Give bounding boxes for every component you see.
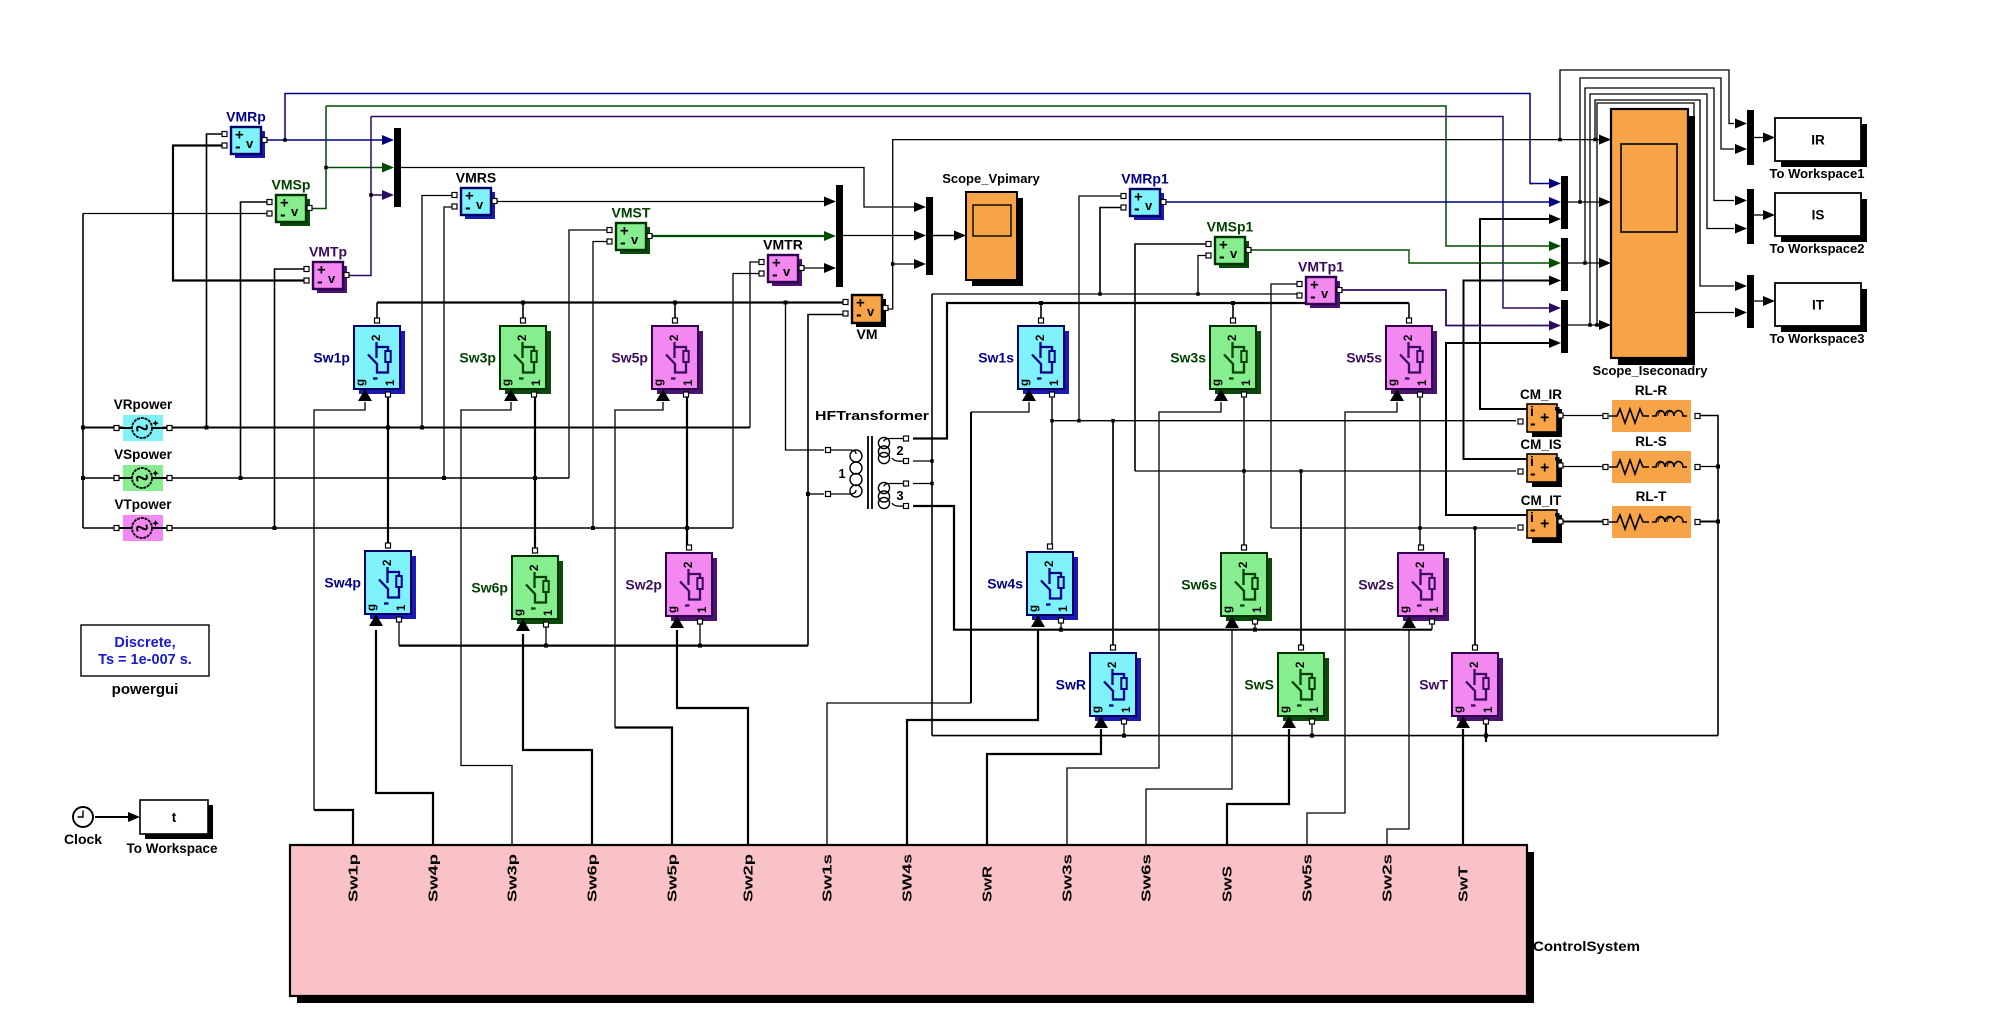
switch Sw5s <box>1346 318 1437 401</box>
svg-text:VRpower: VRpower <box>114 397 173 412</box>
wire muxR output to IR <box>1754 137 1766 139</box>
wire Sw6p p1 stub <box>545 627 547 646</box>
svg-text:-: - <box>235 137 241 156</box>
svg-text:To Workspace3: To Workspace3 <box>1770 331 1865 346</box>
wire Sw1p p2 stub <box>376 303 378 319</box>
wire Sw3p p2 stub <box>522 303 524 319</box>
wire muxT output to IT <box>1754 300 1766 302</box>
voltmeter VMTp1 <box>1297 259 1344 309</box>
wire muxB output to scope <box>1568 262 1601 264</box>
svg-text:To Workspace2: To Workspace2 <box>1770 241 1865 256</box>
wire loop6 to muxT in2 <box>1597 103 1734 325</box>
svg-text:To Workspace1: To Workspace1 <box>1770 166 1865 181</box>
wire neutral vertical <box>82 214 84 529</box>
powergui block <box>81 625 209 698</box>
wire control Sw1s <box>827 703 971 845</box>
svg-text:VM: VM <box>857 326 878 342</box>
mux muxR <box>1747 110 1754 165</box>
svg-text:t: t <box>172 810 177 825</box>
svg-text:-: - <box>772 265 778 284</box>
voltmeter VM <box>843 295 888 343</box>
svg-text:VMSp1: VMSp1 <box>1207 219 1254 235</box>
svg-text:g: g <box>513 609 525 616</box>
svg-text:VMST: VMST <box>612 205 651 221</box>
svg-text:2: 2 <box>1415 562 1427 568</box>
wire S secondary midpoint riser <box>1243 394 1245 549</box>
svg-text:Sw1p: Sw1p <box>313 350 350 366</box>
to-workspace t <box>126 800 218 856</box>
wire transformer w1 bottom <box>808 493 824 495</box>
wire VMST- riser <box>593 242 608 529</box>
switch SwS <box>1244 645 1329 728</box>
wire control Sw4p <box>376 630 433 845</box>
wire VM minus riser to emitter rail <box>808 315 845 646</box>
svg-text:Sw4p: Sw4p <box>427 853 441 902</box>
svg-text:Sw3s: Sw3s <box>1170 350 1206 366</box>
wire VMTp+ riser <box>275 269 306 528</box>
svg-text:2: 2 <box>669 335 681 341</box>
transformer HFTransformer <box>815 408 929 509</box>
wire VMSp green long line to muxB <box>326 106 1551 246</box>
mux mux2 <box>836 185 843 287</box>
mux muxB <box>1561 238 1568 291</box>
svg-text:2: 2 <box>1403 335 1415 341</box>
svg-text:v: v <box>1230 246 1238 261</box>
svg-text:1: 1 <box>385 379 397 386</box>
current measurement CM_IT <box>1518 493 1563 543</box>
wire control Sw2p <box>677 630 748 845</box>
svg-text:Sw1s: Sw1s <box>821 854 835 902</box>
svg-text:Scope_Vpimary: Scope_Vpimary <box>942 171 1040 186</box>
switch Sw3s <box>1170 318 1261 401</box>
voltmeter VMTp <box>304 244 349 294</box>
switch Sw2s <box>1358 545 1449 628</box>
mux mux1 <box>394 128 401 207</box>
svg-text:1: 1 <box>1309 706 1321 713</box>
wire center tap to secondary VM minus <box>932 293 1298 295</box>
wire VMSp+ riser <box>241 202 269 478</box>
wire Sw5s p2 stub <box>1408 303 1410 318</box>
svg-text:1: 1 <box>531 379 543 386</box>
RL load RL-R <box>1603 383 1700 432</box>
mux muxS <box>1747 189 1754 244</box>
wire loop5 to muxT in1 <box>1595 100 1734 286</box>
svg-text:-: - <box>1310 287 1316 306</box>
wire Sw6s p1 stub <box>1254 622 1256 630</box>
wire mux1 output <box>401 168 917 208</box>
svg-text:IT: IT <box>1812 298 1825 313</box>
wire control SwS <box>1227 729 1289 845</box>
wire VMTR+ riser <box>750 262 760 428</box>
svg-text:1: 1 <box>1429 606 1441 613</box>
svg-text:g: g <box>1279 706 1291 713</box>
svg-text:2: 2 <box>517 335 529 341</box>
wire control SwR <box>987 729 1101 845</box>
wire muxA output to scope <box>1568 201 1601 203</box>
wire Sw3s p2 stub <box>1232 303 1234 318</box>
wire VMTp output purple <box>344 117 371 276</box>
svg-text:2: 2 <box>1238 562 1250 568</box>
svg-text:v: v <box>246 136 254 151</box>
switch Sw1s <box>978 318 1069 401</box>
svg-text:SW4s: SW4s <box>901 854 915 902</box>
wire VMST output green thick <box>648 235 827 237</box>
svg-text:Ts = 1e-007 s.: Ts = 1e-007 s. <box>98 652 192 668</box>
wire primary emitter rail <box>399 644 808 646</box>
mux muxT <box>1747 275 1754 328</box>
svg-text:2: 2 <box>683 562 695 568</box>
wire RL return common <box>1699 416 1718 736</box>
wire SwT p1 stub <box>1485 721 1487 742</box>
wire w3-bottom to secondary emitter rail <box>913 506 1432 630</box>
svg-text:2: 2 <box>371 335 383 341</box>
svg-text:Sw2p: Sw2p <box>742 853 756 902</box>
switch Sw1p <box>313 318 405 401</box>
svg-text:Sw2s: Sw2s <box>1381 854 1395 902</box>
svg-text:VMTp: VMTp <box>309 244 347 260</box>
svg-text:-: - <box>1134 199 1140 218</box>
voltmeter VMRp1 <box>1121 171 1169 221</box>
switch Sw3p <box>459 318 551 401</box>
wire control SwT <box>1462 729 1464 845</box>
svg-text:CM_IT: CM_IT <box>1521 493 1562 508</box>
svg-text:+: + <box>1540 460 1549 477</box>
svg-text:Sw1s: Sw1s <box>978 350 1014 366</box>
wire T phase line <box>83 527 733 529</box>
svg-text:Sw1p: Sw1p <box>347 853 361 902</box>
wire control Sw6p <box>523 634 592 845</box>
svg-text:v: v <box>328 271 336 286</box>
svg-text:-: - <box>620 233 626 252</box>
svg-text:Sw5s: Sw5s <box>1346 350 1382 366</box>
svg-text:-: - <box>1530 414 1536 433</box>
wire control Sw2s <box>1387 630 1409 845</box>
wire VMSp1+ riser <box>1135 244 1207 471</box>
switch SwT <box>1419 645 1503 728</box>
wire VMSp output green <box>307 106 326 209</box>
wire CM_IS i signal <box>1464 281 1552 460</box>
wire VMRp1 output navy <box>1163 201 1551 203</box>
svg-text:RL-R: RL-R <box>1635 383 1667 398</box>
svg-text:-: - <box>856 305 862 324</box>
wire SwS p1 stub <box>1311 721 1313 736</box>
wire Sw1s p2 stub <box>1040 303 1042 318</box>
svg-text:To Workspace: To Workspace <box>126 841 218 856</box>
to-workspace IS <box>1770 193 1867 256</box>
svg-text:SwR: SwR <box>981 866 995 902</box>
wire mux3 output to Scope_Vpimary <box>933 235 957 237</box>
current measurement CM_IS <box>1518 437 1563 487</box>
wire S midpoint riser <box>534 394 536 549</box>
junction S line <box>239 476 243 480</box>
wire muxS output to IS <box>1754 214 1766 216</box>
RL load RL-S <box>1603 434 1700 483</box>
svg-text:1: 1 <box>1417 379 1429 386</box>
wire VMTR- riser <box>733 274 760 529</box>
svg-text:v: v <box>783 264 791 279</box>
wire clock to workspace t <box>95 816 128 818</box>
svg-text:1: 1 <box>838 466 845 481</box>
svg-text:1: 1 <box>1252 606 1264 613</box>
wire Sw2p p1 stub <box>699 624 701 646</box>
scope Scope_Vpimary <box>942 171 1040 286</box>
wire muxC output to scope <box>1568 324 1601 326</box>
subsystem ControlSystem <box>290 845 1640 1003</box>
svg-text:SwS: SwS <box>1244 677 1274 693</box>
svg-text:v: v <box>291 204 299 219</box>
wire VMTR output <box>801 267 827 269</box>
wire VMTp1 output navy <box>1339 290 1551 326</box>
wire S phase line <box>83 477 569 479</box>
svg-text:-: - <box>317 272 323 291</box>
svg-text:g: g <box>355 379 367 386</box>
wire SwR p1 stub <box>1123 721 1125 736</box>
wire VMSp- to neutral <box>83 213 268 215</box>
wire VMRS- riser <box>444 207 453 478</box>
wire CM_IT i signal <box>1446 343 1551 515</box>
wire Sw5p p2 stub <box>674 303 676 319</box>
mux muxA <box>1561 176 1568 229</box>
svg-text:RL-S: RL-S <box>1635 434 1667 449</box>
svg-text:Sw4s: Sw4s <box>987 576 1023 592</box>
svg-text:Sw6p: Sw6p <box>471 580 508 596</box>
svg-text:-: - <box>1530 464 1536 483</box>
svg-text:v: v <box>1145 198 1153 213</box>
wire VMTp purple long line to muxC <box>371 117 1551 309</box>
clock block <box>64 807 102 847</box>
svg-text:-: - <box>1530 520 1536 539</box>
svg-text:Sw4p: Sw4p <box>324 575 361 591</box>
svg-text:Sw6s: Sw6s <box>1181 577 1217 593</box>
switch Sw6s <box>1181 545 1272 628</box>
svg-text:v: v <box>867 304 875 319</box>
wire control Sw5p <box>615 728 672 846</box>
svg-text:+: + <box>1540 410 1549 427</box>
wire T midpoint riser <box>686 394 688 546</box>
svg-text:Sw6s: Sw6s <box>1140 854 1154 902</box>
AC source VRpower <box>114 397 173 441</box>
svg-text:VMRp: VMRp <box>226 109 266 125</box>
svg-text:1: 1 <box>683 379 695 386</box>
wire CM_IT to RL-T <box>1561 521 1604 523</box>
wire loop3 to muxS in1 <box>1585 88 1734 263</box>
junction T line <box>273 526 277 530</box>
wire primary collector rail <box>377 301 845 303</box>
wire VMSp1- riser <box>1198 256 1207 295</box>
wire VMRp1+ riser <box>1079 196 1122 421</box>
svg-text:CM_IR: CM_IR <box>1520 387 1562 402</box>
svg-text:g: g <box>501 379 513 386</box>
svg-text:1: 1 <box>1058 605 1070 612</box>
svg-text:g: g <box>1211 379 1223 386</box>
wire VMRp1- riser <box>1100 208 1122 295</box>
wire control Sw1p <box>314 810 353 845</box>
wire VM branch to mux3 <box>893 263 917 265</box>
voltmeter VMSp1 <box>1206 219 1254 269</box>
switch Sw6p <box>471 548 563 631</box>
wire R secondary midpoint riser <box>1051 394 1053 544</box>
svg-text:g: g <box>1019 379 1031 386</box>
svg-text:IR: IR <box>1811 133 1825 148</box>
svg-text:SwT: SwT <box>1419 677 1448 693</box>
svg-text:g: g <box>653 379 665 386</box>
svg-text:2: 2 <box>896 443 903 458</box>
switch Sw5p <box>611 318 703 401</box>
switch Sw4p <box>324 543 416 626</box>
svg-text:-: - <box>280 205 286 224</box>
svg-text:Sw3s: Sw3s <box>1061 854 1075 902</box>
wire CM_IS to RL-S <box>1561 466 1604 468</box>
wire control Sw6s <box>1146 630 1232 845</box>
svg-text:VSpower: VSpower <box>114 447 173 462</box>
wire loop2 to muxR in2 <box>1580 78 1734 202</box>
junction R line <box>205 426 209 430</box>
wire CM_IR to RL-R <box>1561 415 1604 417</box>
svg-text:HFTransformer: HFTransformer <box>815 408 929 423</box>
svg-text:ControlSystem: ControlSystem <box>1533 938 1640 954</box>
wire control Sw5s <box>1307 402 1397 845</box>
svg-text:Scope_Iseconadry: Scope_Iseconadry <box>1593 363 1709 378</box>
svg-text:Sw5p: Sw5p <box>611 350 648 366</box>
svg-text:2: 2 <box>382 560 394 566</box>
svg-text:2: 2 <box>529 565 541 571</box>
svg-text:Sw6p: Sw6p <box>586 853 600 902</box>
svg-text:2: 2 <box>1227 335 1239 341</box>
svg-text:+: + <box>1540 516 1549 533</box>
wire VMRS+ riser <box>422 196 453 428</box>
switch SwR <box>1056 645 1141 728</box>
svg-text:1: 1 <box>1121 706 1133 713</box>
svg-text:Sw2s: Sw2s <box>1358 577 1394 593</box>
wire VMTp to mux1 <box>371 194 385 196</box>
svg-text:Sw5p: Sw5p <box>666 853 680 902</box>
wire VM output riser to scope and mux3 <box>887 140 1601 309</box>
wire SwR p2 riser <box>1112 421 1114 645</box>
svg-text:CM_IS: CM_IS <box>1520 437 1561 452</box>
wire SwS p2 riser <box>1300 471 1302 645</box>
svg-text:1: 1 <box>1241 379 1253 386</box>
svg-text:1: 1 <box>697 606 709 613</box>
voltmeter VMST <box>607 205 652 255</box>
svg-text:VMTp1: VMTp1 <box>1298 259 1344 275</box>
mux mux3 <box>926 197 933 275</box>
svg-text:v: v <box>631 232 639 247</box>
wire VMSp1 output green <box>1248 250 1551 263</box>
svg-text:Sw3p: Sw3p <box>459 350 496 366</box>
svg-text:g: g <box>1028 605 1040 612</box>
svg-text:g: g <box>1387 379 1399 386</box>
wire VMRp+ riser <box>207 134 224 428</box>
wire control Sw3p <box>461 402 512 845</box>
svg-text:1: 1 <box>1049 379 1061 386</box>
wire w2-top to secondary rail <box>913 303 1409 439</box>
svg-text:Sw3p: Sw3p <box>506 853 520 902</box>
wire R phase line <box>83 427 750 429</box>
svg-text:1: 1 <box>1483 706 1495 713</box>
svg-text:2: 2 <box>1295 662 1307 668</box>
switch Sw4s <box>987 544 1078 627</box>
wire mux2 output <box>843 235 917 237</box>
svg-text:1: 1 <box>543 609 555 616</box>
svg-text:2: 2 <box>1469 662 1481 668</box>
svg-text:g: g <box>1399 606 1411 613</box>
wire control Sw3s <box>1067 402 1221 845</box>
wire center tap <box>913 460 932 462</box>
scope Scope_Iseconadry <box>1593 109 1709 378</box>
wire control SW4s <box>907 629 1038 845</box>
svg-text:g: g <box>366 604 378 611</box>
svg-text:SwR: SwR <box>1056 677 1086 693</box>
svg-text:3: 3 <box>896 488 903 503</box>
wire CM_IR i signal <box>1480 219 1551 409</box>
wire S secondary line to CM_IS <box>1135 470 1516 472</box>
svg-text:2: 2 <box>1035 335 1047 341</box>
svg-text:VTpower: VTpower <box>114 497 172 512</box>
svg-text:g: g <box>1222 606 1234 613</box>
wire VMTp1+ riser <box>1271 284 1298 528</box>
RL load RL-T <box>1603 489 1700 538</box>
wire T secondary midpoint riser <box>1419 394 1421 549</box>
wire SwT p2 riser <box>1474 528 1476 645</box>
svg-text:SwT: SwT <box>1457 865 1471 902</box>
AC source VSpower <box>114 447 173 491</box>
svg-text:VMSp: VMSp <box>272 177 311 193</box>
svg-text:Clock: Clock <box>64 831 102 847</box>
voltmeter VMRS <box>452 170 497 220</box>
svg-text:Sw5s: Sw5s <box>1301 854 1315 902</box>
svg-text:VMRS: VMRS <box>456 170 496 186</box>
wire loop1 scope in1 to muxR in1 <box>1560 70 1734 140</box>
mux muxC <box>1561 300 1568 353</box>
svg-text:v: v <box>476 197 484 212</box>
svg-text:g: g <box>667 606 679 613</box>
svg-text:1: 1 <box>396 604 408 611</box>
wire VMST+ riser <box>569 230 608 478</box>
voltmeter VMTR <box>759 237 804 287</box>
current measurement CM_IR <box>1518 387 1563 437</box>
wire VMSp to mux1 <box>326 167 385 169</box>
wire transformer w1 top <box>786 303 825 451</box>
switch Sw2p <box>625 545 717 628</box>
voltmeter VMSp <box>267 177 312 227</box>
svg-text:IS: IS <box>1812 208 1825 223</box>
wire Sw4s p1 stub <box>1060 621 1062 630</box>
wire Sw2s p1 stub <box>1431 622 1433 630</box>
wire R midpoint riser <box>387 394 389 544</box>
svg-text:g: g <box>1453 706 1465 713</box>
svg-text:powergui: powergui <box>112 681 179 698</box>
svg-text:RL-T: RL-T <box>1636 489 1667 504</box>
wire R secondary line to CM_IR <box>1052 420 1516 422</box>
to-workspace IT <box>1770 283 1867 346</box>
wire VMRS output <box>495 201 827 203</box>
svg-text:SwS: SwS <box>1221 866 1235 902</box>
svg-text:-: - <box>465 198 471 217</box>
svg-text:g: g <box>1091 706 1103 713</box>
wire load return rail <box>932 735 1718 737</box>
svg-text:-: - <box>1219 247 1225 266</box>
svg-text:2: 2 <box>1044 561 1056 567</box>
svg-text:v: v <box>1321 286 1329 301</box>
AC source VTpower <box>114 497 172 541</box>
wire VMRp navy long line to muxA <box>285 94 1533 184</box>
wire loop4 to muxS in2 <box>1590 94 1734 325</box>
svg-text:Sw2p: Sw2p <box>625 577 662 593</box>
wire VMRp output navy <box>262 139 385 141</box>
wire T secondary line to CM_IT <box>1271 527 1516 529</box>
svg-text:Discrete,: Discrete, <box>114 635 175 651</box>
svg-text:VMRp1: VMRp1 <box>1121 171 1169 187</box>
